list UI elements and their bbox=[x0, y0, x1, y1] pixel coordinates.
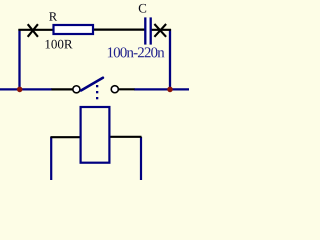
no-connect X at C right pin bbox=[154, 24, 166, 37]
resistor R designator label bbox=[49, 12, 57, 20]
pin: C to top-right corner bbox=[151, 29, 171, 31]
switch blade (open) bbox=[81, 78, 103, 91]
capacitor C designator label bbox=[139, 4, 146, 13]
wire: relay coil left lead down bbox=[50, 137, 52, 180]
capacitor C left plate bbox=[144, 17, 146, 44]
switch-coil link dotted line bbox=[96, 85, 98, 99]
pin: top-left horizontal (corner to R) bbox=[18, 29, 53, 31]
wire: relay coil right lead down bbox=[140, 137, 142, 180]
pin: relay coil right bbox=[110, 136, 142, 138]
pin: R to C horizontal bbox=[94, 29, 145, 31]
pin: switch right contact to bus bbox=[118, 88, 135, 90]
sheet background bbox=[0, 0, 189, 180]
junction dot left bbox=[17, 87, 23, 93]
pin: relay coil left bbox=[51, 136, 81, 138]
pin: bus to switch left contact bbox=[52, 88, 74, 90]
junction dot right bbox=[167, 87, 173, 93]
wire: left vertical net bbox=[18, 29, 20, 90]
resistor R value label 100R bbox=[46, 40, 73, 49]
capacitor C right plate bbox=[150, 17, 152, 44]
capacitor C gap fill bbox=[147, 18, 150, 44]
wire: bottom bus left segment bbox=[0, 88, 52, 90]
wire: right vertical net bbox=[169, 29, 171, 90]
switch right contact circle bbox=[111, 86, 118, 93]
capacitor C value label 100n-220n bbox=[108, 47, 165, 57]
relay coil body bbox=[81, 107, 110, 163]
wire: bottom bus right segment bbox=[134, 88, 189, 90]
no-connect X at R left pin bbox=[28, 24, 38, 37]
resistor R body bbox=[54, 25, 94, 34]
switch left contact circle bbox=[73, 86, 80, 93]
